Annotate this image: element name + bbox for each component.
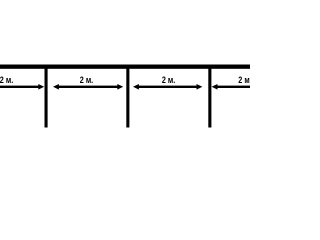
svg-text:2 м.: 2 м. xyxy=(80,75,93,85)
svg-text:2 м.: 2 м. xyxy=(238,75,250,85)
svg-text:2 м.: 2 м. xyxy=(0,75,13,85)
svg-text:2 м.: 2 м. xyxy=(162,75,175,85)
